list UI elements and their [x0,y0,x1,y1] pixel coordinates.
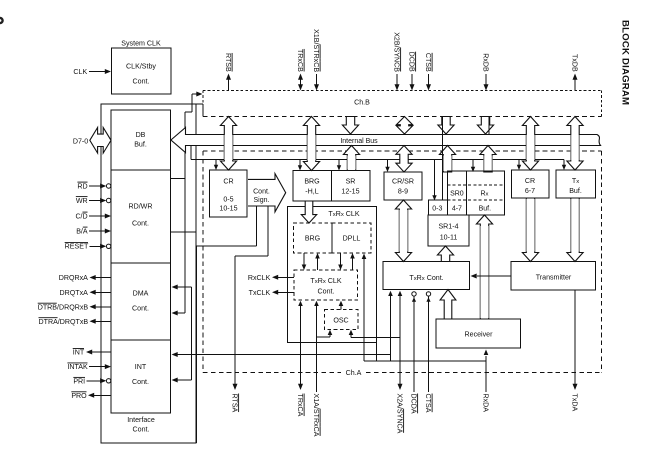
svg-text:PRI: PRI [73,378,85,386]
arrow Receiver to TxRxCont [440,290,456,320]
wire ContSign drop2 [267,206,269,256]
svg-text:BRG: BRG [305,235,320,243]
arrow ChB-bus-CR67 column [522,117,538,171]
block Interface Cont (outer) [101,104,196,443]
arrow ChB to bus x350 [342,117,358,135]
svg-text:CLK/Stby: CLK/Stby [126,63,156,71]
wire V390.5 TxRxCont drop [390,296,392,338]
svg-text:X2A/SYNCA: X2A/SYNCA [395,394,403,434]
arrow SR12-15 to bus [343,146,359,171]
svg-text:INT: INT [135,363,147,371]
block INT Cont [111,340,171,413]
dashed box Ch.B [203,90,602,92]
arrow ChB-bus diamond x404 [396,117,412,135]
svg-text:Sign.: Sign. [254,197,270,204]
bus Internal Bus [171,128,601,153]
svg-text:10-11: 10-11 [440,234,458,242]
wire H361 to RxDA [364,360,486,362]
wire feed stub x=300 [299,160,301,167]
wire X2A vertical [399,296,401,385]
block Tx Buf [556,170,596,198]
svg-text:RxDA: RxDA [481,394,489,413]
svg-text:Receiver: Receiver [465,331,494,339]
svg-text:WR: WR [76,197,88,205]
wire Transmitter to TxRxCont [477,275,511,277]
wire RTSA vertical [234,256,236,384]
wire outer-top to Ch.B corner [196,103,203,105]
svg-text:CR: CR [525,177,535,185]
svg-text:DMA: DMA [133,290,149,298]
svg-text:Ch.B: Ch.B [354,99,370,107]
svg-text:BRG: BRG [304,178,319,186]
svg-text:TxDB: TxDB [570,54,578,72]
svg-text:10-15: 10-15 [219,205,237,213]
wire H178 RDWR [171,178,186,180]
svg-text:DRQTxA: DRQTxA [60,289,89,297]
svg-text:DTRB/DRQRxB: DTRB/DRQRxB [38,303,89,311]
wire DB Buf to Ch.B arrow [191,94,193,112]
block TxRx CLK Cont (dashed) [294,270,358,300]
wire INT long y354 [172,352,178,357]
svg-text:4-7: 4-7 [452,205,462,212]
block CLK/Stby Cont (System CLK) [112,48,172,94]
svg-text:X1A/STRxCA: X1A/STRxCA [312,394,320,437]
svg-text:Cont.: Cont. [318,288,335,296]
svg-text:Cont.: Cont. [132,220,149,228]
svg-text:CR/SR: CR/SR [392,178,414,186]
wire register feed line [190,146,192,160]
svg-text:RESET: RESET [65,243,89,251]
svg-text:TRxCA: TRxCA [296,394,304,417]
signal DCDA label [409,394,417,414]
svg-text:Ch.A: Ch.A [346,369,362,377]
wire thin x=442.5 ChB to 0-3 cell [442,117,444,201]
arrow TxBuf to Transmitter [567,198,583,262]
svg-text:Cont.: Cont. [132,305,149,313]
signal TxDA [574,290,576,384]
svg-text:X2B/SYNCB: X2B/SYNCB [392,32,400,72]
svg-text:RD: RD [77,182,87,190]
svg-text:Cont.: Cont. [133,426,150,434]
svg-text:Buf.: Buf. [569,187,582,195]
block RD/WR Cont [111,170,171,263]
signal TRxCA [300,306,302,384]
svg-text:Rx: Rx [480,190,488,197]
block TxRx CLK (outer) [288,207,377,343]
svg-text:Tx: Tx [572,177,579,185]
wire box corner drop [376,343,378,362]
svg-text:BLOCK DIAGRAM: BLOCK DIAGRAM [620,20,631,105]
svg-text:DPLL: DPLL [343,235,361,243]
svg-text:SR: SR [346,178,356,186]
arrow grid to bus x488 [480,146,496,173]
arrow ChB-bus-CR column [220,117,236,171]
svg-text:12-15: 12-15 [341,188,359,196]
svg-text:INTAK: INTAK [67,363,88,371]
signal CTSB [424,53,432,72]
svg-text:OSC: OSC [333,317,348,325]
signal TRxCB [296,49,304,72]
wire thin x=489 ChB to bus [488,117,490,135]
arrow grid to bus x447 [439,146,455,173]
block DB Buf [111,110,171,170]
svg-text:DCDB: DCDB [407,52,415,72]
arrow ChB to bus x446 [438,117,454,135]
block DPLL (dashed) [332,223,371,253]
svg-text:TxDA: TxDA [570,394,578,412]
arrow ChB-bus-TxBuf column [567,117,583,171]
wires BRG/DPLL to Cont [303,253,305,265]
svg-text:CTSB: CTSB [424,53,432,72]
svg-text:SR0: SR0 [450,190,464,197]
arrow bus-CRSR89 [396,146,412,173]
wire feed stub x=519 [518,160,520,166]
wire DMA arrow y287 [177,286,192,288]
svg-text:0-3: 0-3 [432,205,442,212]
block CR/SR 8-9 [384,172,422,200]
svg-text:C/D: C/D [75,212,87,220]
wire feed stub x=473 [472,160,474,168]
wire V364 DPLL feed [363,259,365,361]
svg-text:Transmitter: Transmitter [536,273,572,281]
svg-text:CLK: CLK [73,68,87,76]
block SR0/Rx register grid [447,171,504,215]
svg-text:CTSA: CTSA [424,394,432,413]
svg-text:Buf.: Buf. [134,141,147,149]
signal DCDB [407,52,415,72]
svg-text:DB: DB [136,131,146,139]
block TxRx Cont [383,262,470,290]
block Transmitter [511,262,596,291]
svg-text:Interface: Interface [127,416,155,424]
svg-text:B/A: B/A [76,227,88,235]
signal X2A/SYNCA [398,384,403,390]
block Receiver [436,319,521,348]
svg-text:CR: CR [223,178,233,186]
svg-text:Cont.: Cont. [253,189,270,196]
wire feed stub x=434 to 0-3 cell [434,160,436,197]
signal CTSA label [424,394,432,413]
svg-text:PRO: PRO [71,392,87,400]
svg-text:D7-0: D7-0 [73,138,88,146]
svg-text:System CLK: System CLK [121,40,161,48]
svg-text:6-7: 6-7 [525,187,535,195]
dashed box Ch.A [203,150,602,152]
svg-text:X1B/STRxCB: X1B/STRxCB [312,29,320,72]
arrow Receiver to RxBuf [476,215,492,319]
svg-text:DTRA/DRQTxB: DTRA/DRQTxB [39,318,89,326]
signal X2B/SYNCB [392,32,400,72]
arrow ChB to bus x485 [477,117,493,135]
signal RxDA [485,356,487,392]
svg-text:-H,L: -H,L [305,188,318,196]
svg-text:Internal Bus: Internal Bus [340,138,378,145]
svg-text:RTSA: RTSA [230,394,238,413]
wire DMA arrow y313 [177,312,185,314]
svg-text:0-5: 0-5 [223,196,233,204]
arrow BRG-H,L to BRG [301,201,316,223]
svg-text:RxCLK: RxCLK [248,274,271,282]
arrow CRSR89 to TxRxCont [395,200,411,262]
svg-text:TxRx CLK: TxRx CLK [310,277,341,285]
arrow CR67 to Transmitter [522,198,538,262]
svg-text:Cont.: Cont. [133,78,150,86]
wire feed stub x=387.5 [387,160,389,168]
svg-text:Cont.: Cont. [132,378,149,386]
svg-text:TxRx Cont.: TxRx Cont. [409,274,443,282]
wire feed stub x=216 [215,160,217,166]
svg-text:RD/WR: RD/WR [128,203,152,211]
svg-text:TxRx CLK: TxRx CLK [328,210,359,218]
svg-text:INT: INT [73,349,85,357]
block DMA Cont [111,263,171,340]
wire Cont to OSC [340,306,342,310]
svg-text:8-9: 8-9 [398,188,408,196]
signal RTSA [233,384,238,390]
wire CTSA circle [426,292,430,296]
wire OSC to X1A [328,330,333,335]
title BLOCK DIAGRAM [620,20,631,105]
svg-text:SR1-4: SR1-4 [438,223,458,231]
page edge mark [0,18,3,23]
wire ContSign drop1 [256,206,258,246]
arrow TxRxCont to SR1-4 [437,246,453,262]
wire INT arrow y380 [177,379,192,381]
block arrow Cont.Sign. [248,174,286,212]
block SR 12-15 [332,171,371,202]
svg-text:DCDA: DCDA [409,394,417,414]
svg-text:RTSB: RTSB [224,53,232,72]
block CR 6-7 [512,170,550,198]
wire V185 jog [185,111,192,113]
signal RxDB [481,53,489,72]
signal RTSB [224,53,232,72]
signal X1B/STRxCB [312,29,320,72]
block BRG -H,L [293,171,332,202]
arrow ChB-bus-BRG column [303,117,319,171]
block SR1-4 10-11 [428,215,469,246]
svg-text:TRxCB: TRxCB [296,49,304,72]
signal TxDB [570,54,578,72]
signal X1A/STRxCA [316,306,318,392]
wire OSC in from X2A [349,330,354,335]
svg-text:RxDB: RxDB [481,53,489,72]
svg-text:DRQRxA: DRQRxA [59,274,88,282]
wire feed stub x=564 [563,160,565,166]
wire H232 RDWR [171,231,197,233]
block BRG (dashed) [294,223,333,253]
svg-text:Buf.: Buf. [479,205,492,212]
wire feed stub x=339 [338,160,340,167]
wire DCDA circle [412,292,416,296]
svg-text:TxCLK: TxCLK [249,289,271,297]
block OSC (dashed) [324,310,358,330]
block CR 0-5 10-15 [210,170,248,217]
